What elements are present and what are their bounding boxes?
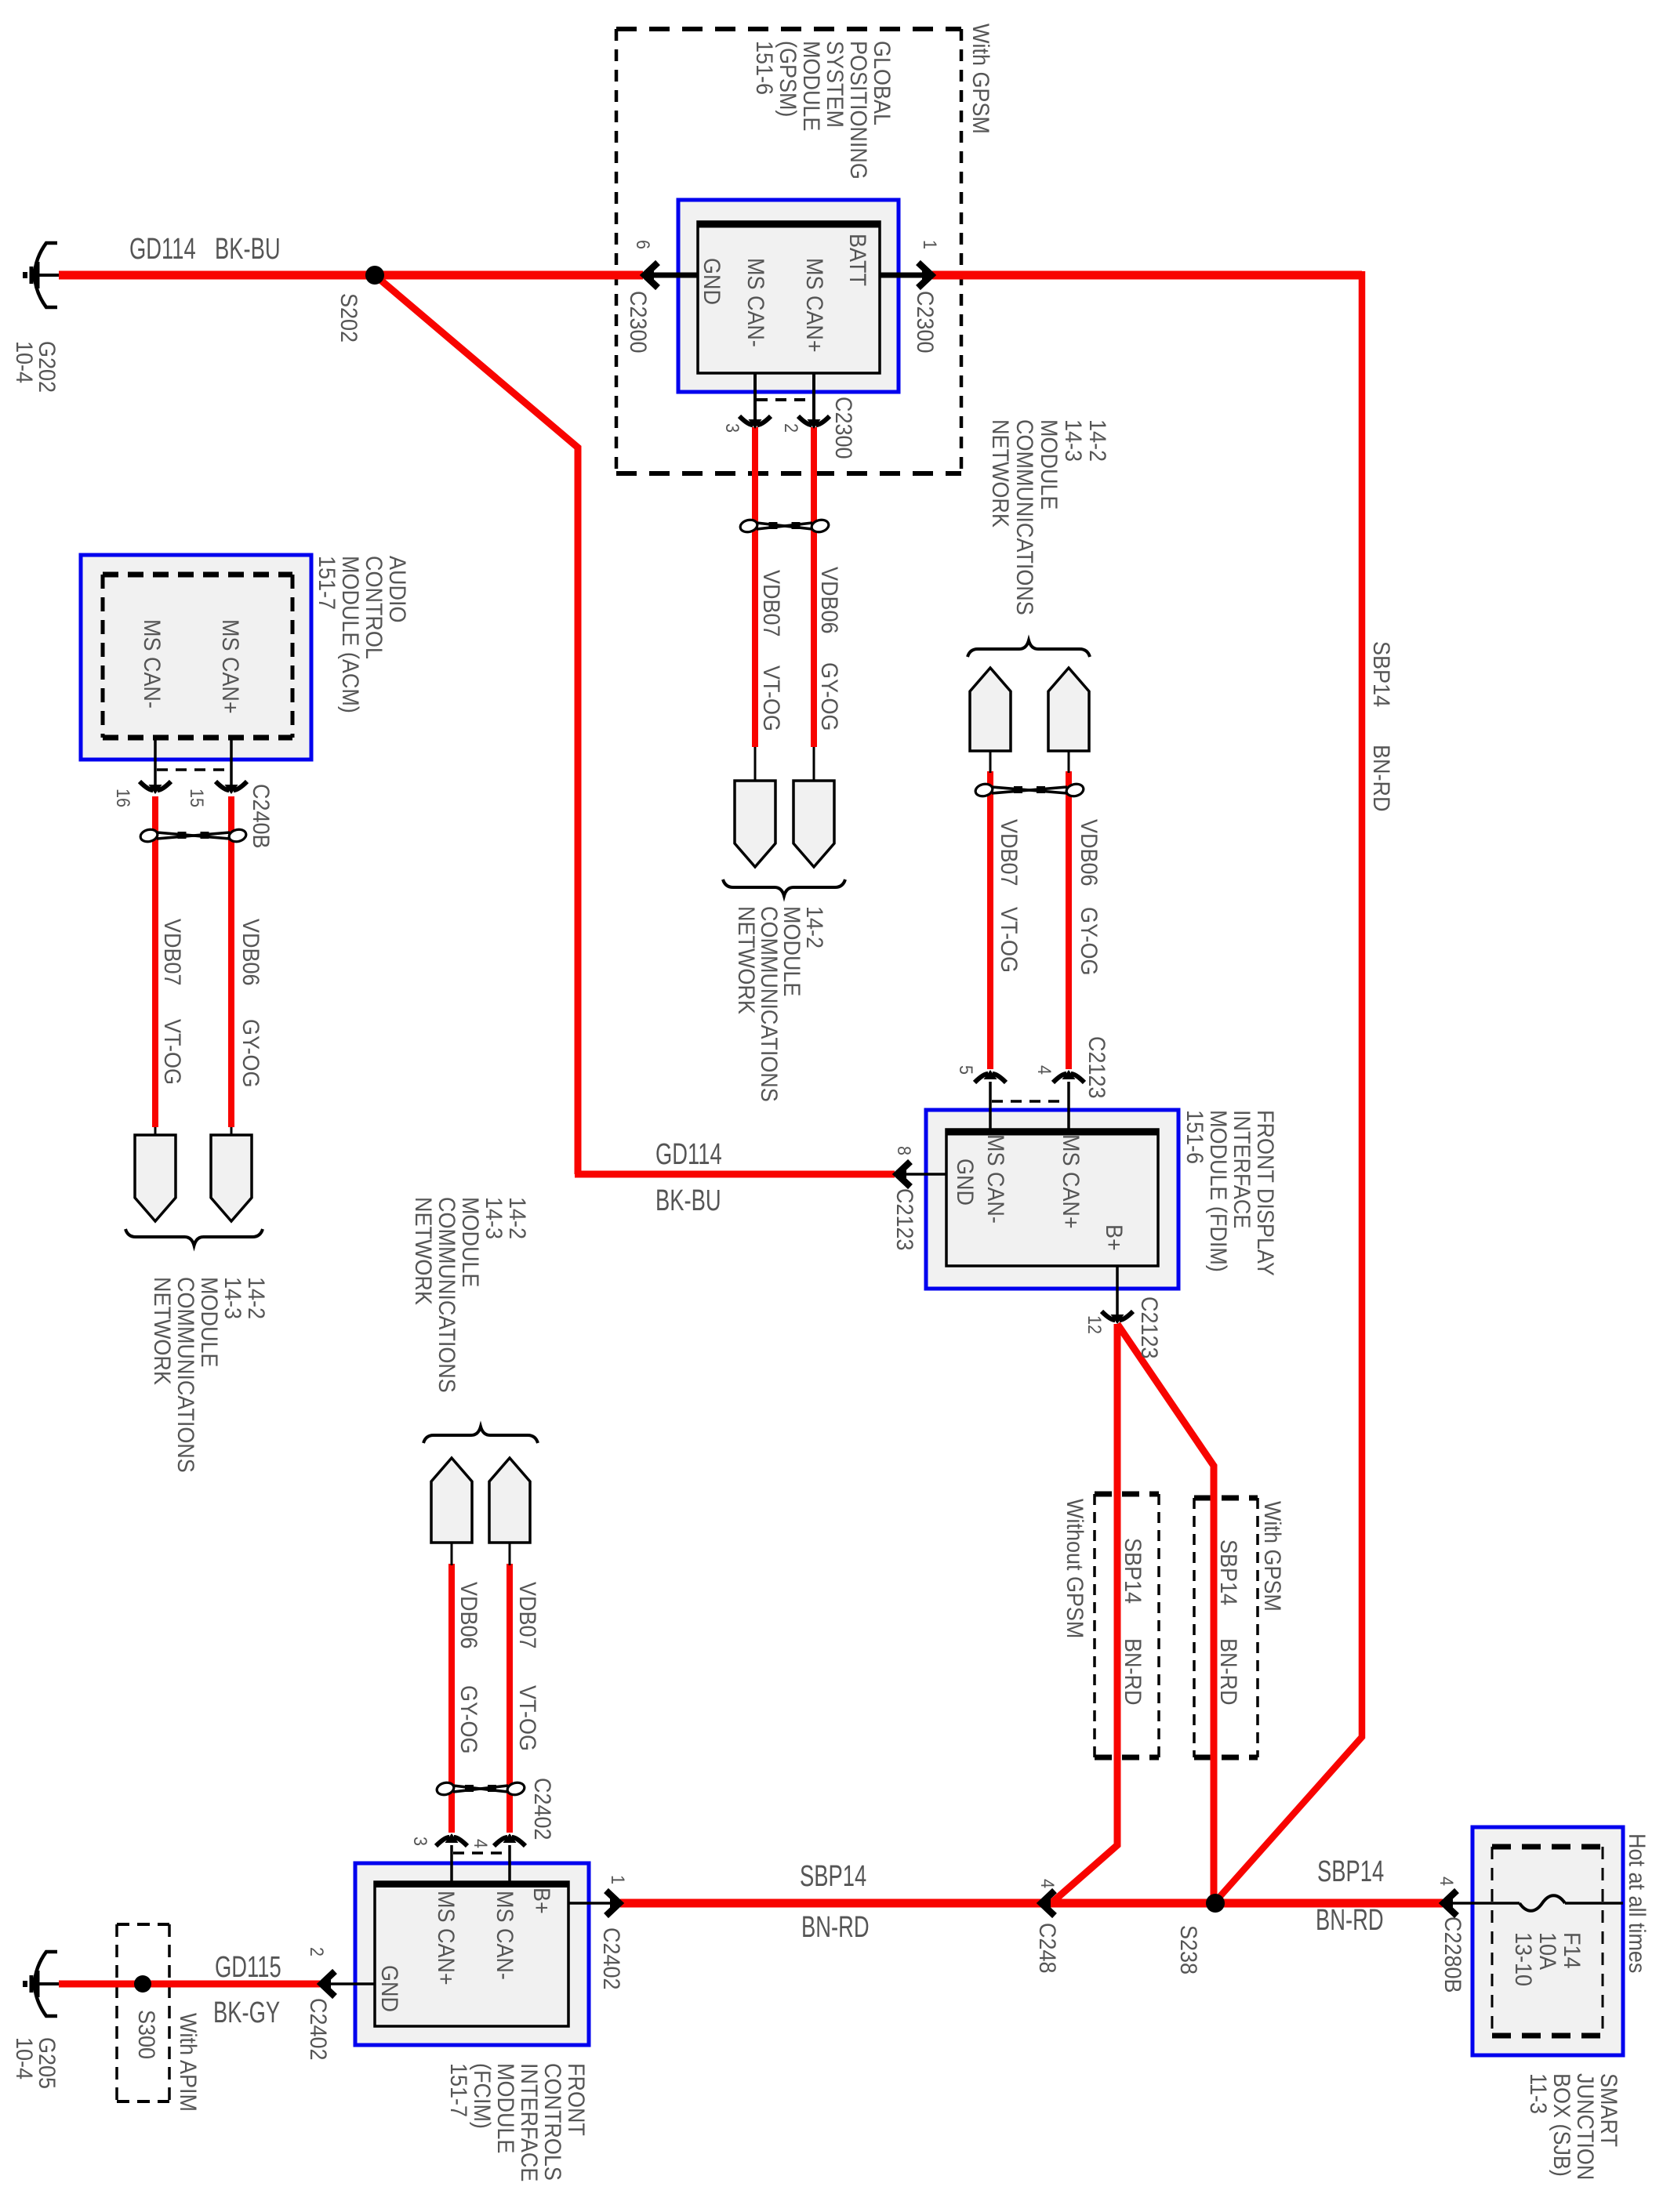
svg-text:151-6: 151-6	[751, 41, 778, 95]
svg-text:BK-BU: BK-BU	[655, 1184, 721, 1217]
svg-text:With GPSM: With GPSM	[1259, 1501, 1286, 1612]
svg-text:(FCIM): (FCIM)	[469, 2063, 496, 2129]
svg-text:151-7: 151-7	[314, 556, 340, 610]
svg-text:S300: S300	[133, 2010, 160, 2059]
svg-text:S202: S202	[336, 293, 362, 343]
svg-text:C248: C248	[1034, 1923, 1061, 1973]
svg-text:4: 4	[470, 1839, 492, 1848]
svg-text:14-3: 14-3	[1060, 419, 1087, 462]
svg-text:MS CAN-: MS CAN-	[139, 619, 165, 709]
svg-text:VT-OG: VT-OG	[514, 1685, 541, 1751]
svg-text:VT-OG: VT-OG	[758, 665, 785, 731]
svg-text:5: 5	[956, 1065, 977, 1075]
svg-text:13-10: 13-10	[1510, 1932, 1537, 1986]
svg-text:MS CAN+: MS CAN+	[801, 258, 828, 353]
svg-text:GND: GND	[699, 258, 725, 305]
svg-text:14-3: 14-3	[481, 1197, 507, 1239]
svg-text:COMMUNICATIONS: COMMUNICATIONS	[434, 1197, 460, 1393]
svg-text:4: 4	[1037, 1879, 1058, 1888]
svg-text:151-6: 151-6	[1182, 1110, 1208, 1164]
svg-text:With GPSM: With GPSM	[968, 24, 994, 134]
svg-text:INTERFACE: INTERFACE	[516, 2063, 543, 2181]
svg-text:10A: 10A	[1534, 1932, 1561, 1970]
svg-text:VT-OG: VT-OG	[159, 1019, 186, 1085]
svg-text:B+: B+	[1101, 1224, 1127, 1251]
svg-text:6: 6	[633, 240, 654, 249]
svg-text:BN-RD: BN-RD	[1316, 1904, 1384, 1937]
svg-text:VT-OG: VT-OG	[996, 907, 1022, 973]
svg-text:AUDIO: AUDIO	[384, 556, 411, 622]
svg-text:MODULE (FDIM): MODULE (FDIM)	[1205, 1110, 1232, 1272]
svg-text:BK-BU: BK-BU	[215, 233, 281, 266]
svg-text:C2123: C2123	[1136, 1296, 1163, 1358]
svg-text:MODULE: MODULE	[196, 1277, 223, 1367]
svg-text:GD114: GD114	[655, 1138, 722, 1171]
svg-text:3: 3	[722, 423, 743, 433]
svg-text:INTERFACE: INTERFACE	[1229, 1110, 1255, 1228]
svg-text:Without GPSM: Without GPSM	[1062, 1499, 1088, 1638]
svg-text:MS CAN-: MS CAN-	[982, 1134, 1009, 1224]
svg-text:VDB07: VDB07	[996, 819, 1022, 886]
svg-text:C2300: C2300	[625, 291, 652, 353]
svg-text:151-7: 151-7	[445, 2063, 472, 2117]
svg-text:MS CAN-: MS CAN-	[743, 258, 769, 347]
svg-text:C2300: C2300	[830, 397, 857, 459]
svg-text:NETWORK: NETWORK	[987, 419, 1014, 528]
svg-text:MS CAN-: MS CAN-	[492, 1891, 518, 1980]
svg-text:BN-RD: BN-RD	[1120, 1638, 1146, 1705]
svg-text:11-3: 11-3	[1525, 2073, 1552, 2114]
svg-text:C2402: C2402	[529, 1778, 556, 1840]
svg-text:4: 4	[1436, 1877, 1458, 1886]
svg-text:GND: GND	[952, 1159, 979, 1206]
svg-text:VDB06: VDB06	[816, 567, 843, 633]
svg-text:BK-GY: BK-GY	[213, 1996, 280, 2029]
svg-text:12: 12	[1084, 1315, 1106, 1334]
svg-text:VDB06: VDB06	[238, 919, 264, 985]
svg-text:BN-RD: BN-RD	[1368, 745, 1395, 811]
svg-text:BATT: BATT	[844, 234, 871, 286]
svg-text:POSITIONING: POSITIONING	[845, 41, 872, 179]
svg-text:C2300: C2300	[912, 291, 939, 353]
svg-text:MODULE: MODULE	[492, 2063, 519, 2153]
svg-text:SYSTEM: SYSTEM	[822, 41, 848, 128]
svg-text:C240B: C240B	[248, 784, 274, 848]
svg-text:1: 1	[920, 240, 941, 249]
svg-text:NETWORK: NETWORK	[149, 1277, 176, 1385]
svg-text:COMMUNICATIONS: COMMUNICATIONS	[1011, 419, 1038, 615]
svg-text:10-4: 10-4	[11, 341, 38, 383]
svg-text:BN-RD: BN-RD	[801, 1911, 870, 1944]
svg-text:CONTROLS: CONTROLS	[539, 2063, 566, 2181]
svg-text:FRONT: FRONT	[563, 2063, 590, 2136]
svg-text:VDB07: VDB07	[159, 919, 186, 985]
svg-text:VDB07: VDB07	[758, 570, 785, 636]
svg-text:C2402: C2402	[305, 1998, 332, 2060]
svg-text:With APIM: With APIM	[175, 2013, 202, 2112]
svg-text:VDB07: VDB07	[514, 1582, 541, 1648]
svg-text:15: 15	[187, 789, 208, 807]
svg-text:GY-OG: GY-OG	[816, 662, 843, 731]
svg-text:NETWORK: NETWORK	[733, 906, 760, 1014]
svg-text:SMART: SMART	[1596, 2073, 1622, 2147]
svg-text:BOX (SJB): BOX (SJB)	[1549, 2073, 1575, 2177]
svg-text:CONTROL: CONTROL	[361, 556, 387, 659]
svg-text:2: 2	[781, 423, 802, 433]
svg-text:S238: S238	[1175, 1925, 1202, 1974]
svg-text:GY-OG: GY-OG	[238, 1019, 264, 1087]
svg-text:MODULE: MODULE	[798, 41, 825, 131]
svg-text:16: 16	[113, 789, 134, 807]
svg-text:COMMUNICATIONS: COMMUNICATIONS	[172, 1277, 199, 1473]
svg-text:MS CAN+: MS CAN+	[433, 1891, 459, 1985]
svg-text:10-4: 10-4	[11, 2037, 38, 2080]
svg-text:C2123: C2123	[1084, 1036, 1110, 1098]
svg-text:SBP14: SBP14	[1215, 1539, 1242, 1605]
svg-text:GD115: GD115	[215, 1951, 281, 1984]
svg-text:2: 2	[307, 1947, 328, 1956]
svg-text:MS CAN+: MS CAN+	[217, 619, 244, 714]
svg-text:VDB06: VDB06	[456, 1582, 482, 1648]
svg-text:(GPSM): (GPSM)	[775, 41, 801, 117]
svg-text:GLOBAL: GLOBAL	[869, 41, 895, 125]
svg-text:BN-RD: BN-RD	[1215, 1638, 1242, 1705]
svg-text:GY-OG: GY-OG	[456, 1685, 482, 1753]
svg-text:14-2: 14-2	[243, 1277, 270, 1319]
svg-text:GY-OG: GY-OG	[1076, 907, 1102, 975]
svg-text:C2123: C2123	[891, 1188, 918, 1250]
svg-text:C2280B: C2280B	[1440, 1916, 1466, 1993]
svg-text:4: 4	[1034, 1065, 1055, 1075]
svg-text:Hot at all times: Hot at all times	[1624, 1833, 1650, 1973]
svg-text:3: 3	[410, 1837, 431, 1846]
svg-text:GD114: GD114	[129, 233, 196, 266]
svg-text:JUNCTION: JUNCTION	[1572, 2073, 1599, 2180]
svg-text:F14: F14	[1559, 1932, 1585, 1969]
svg-text:MS CAN+: MS CAN+	[1058, 1134, 1084, 1229]
svg-text:SBP14: SBP14	[800, 1860, 866, 1893]
svg-text:MODULE: MODULE	[1036, 419, 1062, 509]
svg-text:14-2: 14-2	[1084, 419, 1111, 462]
svg-text:VDB06: VDB06	[1076, 819, 1102, 886]
svg-text:14-3: 14-3	[220, 1277, 246, 1319]
svg-text:C2402: C2402	[598, 1927, 625, 1989]
svg-text:FRONT DISPLAY: FRONT DISPLAY	[1252, 1110, 1279, 1276]
svg-text:GND: GND	[376, 1965, 403, 2012]
svg-text:8: 8	[894, 1146, 915, 1155]
svg-text:B+: B+	[528, 1887, 555, 1914]
svg-text:SBP14: SBP14	[1120, 1538, 1146, 1604]
svg-text:MODULE: MODULE	[457, 1197, 484, 1287]
svg-text:14-2: 14-2	[504, 1197, 531, 1239]
svg-text:1: 1	[608, 1875, 629, 1884]
svg-text:MODULE (ACM): MODULE (ACM)	[337, 556, 364, 713]
svg-text:SBP14: SBP14	[1368, 641, 1395, 707]
svg-text:SBP14: SBP14	[1317, 1855, 1384, 1888]
svg-text:NETWORK: NETWORK	[410, 1197, 437, 1305]
